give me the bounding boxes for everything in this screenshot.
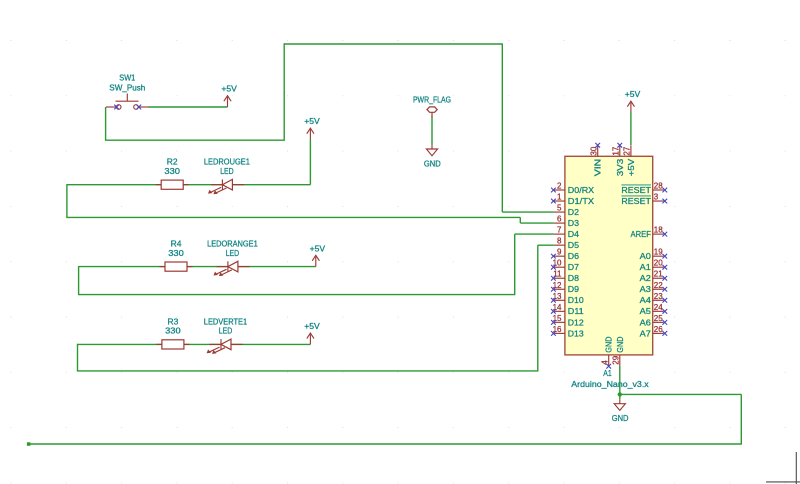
svg-text:A1: A1 (603, 368, 612, 378)
svg-text:29: 29 (612, 355, 621, 364)
svg-text:22: 22 (654, 281, 663, 290)
svg-text:D8: D8 (568, 273, 580, 283)
svg-text:+5V: +5V (310, 243, 326, 253)
svg-text:A1: A1 (640, 262, 652, 272)
wire row2 horizontal (79, 266, 316, 268)
+5V power symbol (row3) (307, 333, 314, 344)
svg-text:SW1: SW1 (119, 73, 135, 83)
svg-text:25: 25 (654, 314, 663, 323)
LED LEDORANGE1 (214, 261, 250, 276)
pin 24 A5 (653, 310, 664, 312)
wire row3 horizontal (78, 343, 311, 345)
resistor R4 (160, 262, 193, 271)
pin 8 D5 (554, 244, 565, 246)
svg-text:Arduino_Nano_v3.x: Arduino_Nano_v3.x (571, 379, 649, 389)
pin 7 D4 (554, 233, 565, 235)
no-connect X pin 23 (662, 298, 667, 303)
wire to pin D3 (520, 222, 554, 224)
svg-text:3V3: 3V3 (615, 158, 625, 176)
svg-text:GND: GND (612, 413, 629, 423)
pin 10 D7 (554, 266, 565, 268)
pin 15 D12 (554, 321, 565, 323)
svg-text:9: 9 (557, 248, 562, 257)
svg-text:LED: LED (220, 166, 233, 176)
svg-text:27: 27 (623, 146, 632, 155)
svg-text:24: 24 (654, 303, 663, 312)
svg-text:RESET: RESET (621, 185, 651, 195)
pin 28 RESET (653, 189, 664, 191)
power flag PWR_FLAG (427, 107, 437, 118)
pin 26 A7 (653, 332, 664, 334)
svg-text:D4: D4 (568, 229, 580, 239)
no-connect X pin 20 (662, 265, 667, 270)
wire row3 return y370 (77, 370, 538, 372)
wire arduino +5V (630, 113, 632, 146)
svg-text:D12: D12 (568, 317, 584, 327)
wire row2 left drop (78, 266, 80, 295)
no-connect X pin 24 (662, 309, 667, 314)
svg-text:+5V: +5V (626, 158, 636, 176)
wire arduino GND drop (619, 366, 621, 399)
Arduino Nano A1 body (565, 156, 653, 355)
pin 16 D13 (554, 332, 565, 334)
no-connect X pin 15 (551, 320, 556, 325)
wire row3 left drop (77, 344, 79, 371)
no-connect X pin 12 (551, 287, 556, 292)
resistor R3 (156, 340, 189, 349)
wire vertical x284 (283, 43, 285, 140)
svg-text:1: 1 (557, 193, 562, 202)
no-connect X pin 17 (617, 143, 622, 148)
no-connect X pin 21 (662, 276, 667, 281)
wire gnd vertical x741 (740, 394, 742, 444)
svg-text:7: 7 (557, 226, 562, 235)
wire gnd horizontal y394 (620, 393, 742, 395)
pin 22 A3 (653, 288, 664, 290)
svg-text:D11: D11 (568, 306, 584, 316)
pin 19 A0 (653, 255, 664, 257)
no-connect X pin 11 (551, 276, 556, 281)
svg-text:A6: A6 (640, 317, 652, 327)
wire row1 left drop (66, 184, 68, 217)
svg-text:4: 4 (601, 360, 610, 365)
pin 4 GND (608, 355, 610, 366)
svg-text:3: 3 (654, 193, 659, 202)
svg-text:A5: A5 (640, 306, 652, 316)
LED LEDVERTE1 (207, 339, 243, 354)
pin 25 A6 (653, 321, 664, 323)
no-connect X pin 1 (551, 199, 556, 204)
no-connect X pin 10 (551, 265, 556, 270)
svg-text:A2: A2 (640, 273, 652, 283)
pin 1 D1/TX (554, 200, 565, 202)
svg-text:D6: D6 (568, 251, 580, 261)
wire vertical x502 (501, 43, 503, 212)
wire to pin D4 (515, 233, 554, 235)
wire SW1 left drop (105, 107, 107, 140)
pin 11 D8 (554, 277, 565, 279)
svg-text:LED: LED (226, 248, 239, 258)
svg-text:6: 6 (557, 215, 562, 224)
no-connect X SW1 pin1 (114, 105, 119, 110)
wire pwr_flag to gnd (431, 117, 433, 145)
pin 27 +5V (630, 145, 632, 156)
no-connect X SW1 pin2 (136, 105, 141, 110)
svg-text:+5V: +5V (304, 321, 320, 331)
svg-text:26: 26 (654, 325, 663, 334)
svg-text:330: 330 (164, 166, 180, 176)
no-connect X pin 28 (662, 188, 667, 193)
svg-text:A3: A3 (640, 284, 652, 294)
svg-text:28: 28 (654, 182, 663, 191)
svg-text:19: 19 (654, 248, 663, 257)
pin 14 D11 (554, 310, 565, 312)
pin 13 D10 (554, 299, 565, 301)
svg-text:8: 8 (557, 237, 562, 246)
wire horizontal y140 (105, 139, 284, 141)
wire to pin D2 (502, 211, 554, 213)
wire row1 step (519, 217, 521, 223)
svg-text:VIN: VIN (593, 159, 603, 177)
no-connect X pin 30 (595, 143, 600, 148)
no-connect X pin 14 (551, 309, 556, 314)
no-connect X pin 25 (662, 320, 667, 325)
svg-text:5: 5 (557, 204, 562, 213)
svg-text:330: 330 (165, 326, 181, 336)
pin 2 D0/RX (554, 189, 565, 191)
svg-text:17: 17 (612, 146, 621, 155)
pin 20 A1 (653, 266, 664, 268)
pin 5 D2 (554, 211, 565, 213)
svg-text:D3: D3 (568, 218, 580, 228)
sheet border corner (766, 452, 800, 484)
pin 23 A4 (653, 299, 664, 301)
svg-text:D7: D7 (568, 262, 580, 272)
svg-text:20: 20 (654, 259, 663, 268)
wire end square (27, 442, 31, 446)
svg-text:GND: GND (604, 337, 614, 353)
no-connect X pin 16 (551, 331, 556, 336)
wire row3 riser x537 (537, 245, 539, 371)
svg-text:D9: D9 (568, 284, 580, 294)
svg-text:D0/RX: D0/RX (568, 185, 595, 195)
wire to pin D5 (538, 244, 554, 246)
GND power symbol (pwr_flag) (426, 145, 437, 156)
+5V power symbol (row1) (307, 128, 314, 139)
pin 17 3V3 (619, 145, 621, 156)
svg-text:D2: D2 (568, 207, 580, 217)
pin 21 A2 (653, 277, 664, 279)
wire row1 horizontal (67, 184, 311, 186)
wire horizontal top y44 (284, 43, 503, 45)
pin 9 D6 (554, 255, 565, 257)
no-connect X pin 9 (551, 254, 556, 259)
pin 18 AREF (653, 233, 664, 235)
resistor R2 (156, 180, 189, 189)
pin 6 D3 (554, 222, 565, 224)
no-connect X pin 18 (662, 232, 667, 237)
pin 3 RESET (653, 200, 664, 202)
svg-text:D5: D5 (568, 240, 580, 250)
wire row2 return y294 (78, 294, 515, 296)
svg-text:21: 21 (654, 270, 663, 279)
LED LEDROUGE1 (208, 179, 244, 194)
pin 29 GND (619, 355, 621, 366)
pin 12 D9 (554, 288, 565, 290)
svg-text:18: 18 (654, 226, 663, 235)
no-connect X pin 3 (662, 199, 667, 204)
no-connect X pin 2 (551, 188, 556, 193)
junction (618, 392, 622, 396)
svg-text:A0: A0 (640, 251, 652, 261)
svg-text:A7: A7 (640, 328, 652, 338)
svg-text:30: 30 (590, 146, 599, 155)
no-connect X pin 22 (662, 287, 667, 292)
+5V power symbol (arduino) (627, 101, 634, 112)
wire gnd bottom y444 (29, 443, 742, 445)
svg-text:GND: GND (615, 337, 625, 353)
svg-text:23: 23 (654, 292, 663, 301)
GND power symbol (arduino) (614, 399, 625, 410)
svg-text:LED: LED (219, 326, 232, 336)
svg-text:AREF: AREF (631, 229, 651, 239)
no-connect X pin 13 (551, 298, 556, 303)
no-connect X pin 26 (662, 331, 667, 336)
switch SW1 SW_Push (106, 94, 149, 110)
svg-text:D10: D10 (568, 295, 584, 305)
svg-text:D1/TX: D1/TX (568, 196, 595, 206)
wire SW1 right to +5V (148, 106, 227, 108)
svg-text:330: 330 (168, 248, 184, 258)
svg-text:2: 2 (557, 182, 562, 191)
svg-text:+5V: +5V (221, 84, 237, 94)
svg-text:+5V: +5V (625, 89, 641, 99)
svg-text:RESET: RESET (621, 196, 651, 206)
+5V power symbol (switch) (224, 96, 231, 107)
svg-text:PWR_FLAG: PWR_FLAG (413, 94, 451, 104)
no-connect X pin 19 (662, 254, 667, 259)
svg-text:SW_Push: SW_Push (109, 82, 145, 92)
wire row1 return y217 (66, 216, 520, 218)
wire row2 riser x514 (514, 234, 516, 295)
+5V power symbol (row2) (312, 255, 319, 266)
wire row1 +5V riser (309, 140, 311, 185)
svg-text:A4: A4 (640, 295, 652, 305)
svg-text:GND: GND (424, 158, 441, 168)
svg-text:D13: D13 (568, 328, 584, 338)
no-connect X pin 4 (606, 364, 611, 369)
pin 30 VIN (597, 145, 599, 156)
svg-text:+5V: +5V (304, 116, 320, 126)
